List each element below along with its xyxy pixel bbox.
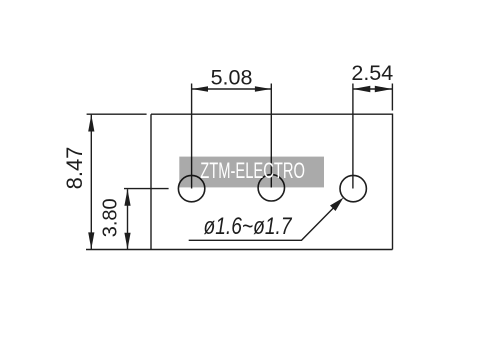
leader line diameter <box>189 200 341 240</box>
arrow 5.08 right <box>255 86 271 92</box>
svg-text:5.08: 5.08 <box>211 65 253 89</box>
arrow leader tip <box>330 198 343 211</box>
watermark box <box>179 157 324 188</box>
hole 2 <box>258 175 284 201</box>
arrow 5.08 left <box>192 86 208 92</box>
svg-text:8.47: 8.47 <box>62 147 87 190</box>
arrow 3.80 bottom <box>124 233 130 250</box>
wire extension hole3 <box>352 84 354 189</box>
hole 3 <box>340 175 366 201</box>
arrow 2.54 right <box>375 86 392 93</box>
svg-text:3.80: 3.80 <box>100 198 122 237</box>
svg-text:ZTM-ELECTRO: ZTM-ELECTRO <box>200 158 305 183</box>
dimension line 8.47 <box>90 115 92 250</box>
wire 3.80 extension line <box>124 188 169 190</box>
wire top-left extension line <box>87 113 147 115</box>
arrow 3.80 top <box>124 189 130 206</box>
hole 1 <box>178 175 204 201</box>
wire extension hole2 <box>270 84 272 188</box>
part body outline <box>151 114 393 249</box>
arrow 8.47 top <box>88 115 94 132</box>
dimension line 5.08 <box>192 88 271 90</box>
arrow 2.54 left <box>353 86 370 93</box>
arrow 8.47 bottom <box>88 232 94 249</box>
dimension line 2.54 <box>353 88 392 90</box>
svg-text:ø1.6~ø1.7: ø1.6~ø1.7 <box>203 212 292 240</box>
svg-text:2.54: 2.54 <box>351 61 393 85</box>
dimension line 3.80 <box>127 189 129 249</box>
wire extension right edge <box>391 84 393 111</box>
wire bottom edge with extension <box>86 249 393 251</box>
wire extension hole1 <box>191 84 193 189</box>
